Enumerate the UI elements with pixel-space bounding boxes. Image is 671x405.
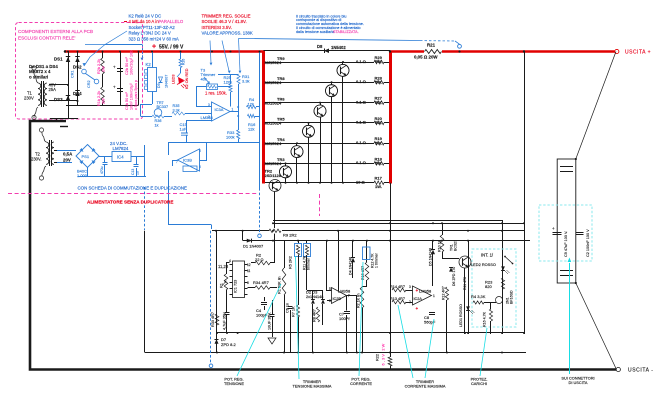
svg-text:0.1 Ω: 0.1 Ω — [356, 79, 367, 84]
svg-text:1 res. 150k.: 1 res. 150k. — [205, 91, 227, 96]
svg-text:R10 1K: R10 1K — [438, 239, 442, 252]
svg-text:5W.: 5W. — [375, 59, 382, 64]
svg-text:DS2: DS2 — [73, 65, 82, 70]
svg-text:5W.: 5W. — [375, 120, 382, 125]
svg-text:R5 2R2: R5 2R2 — [289, 256, 293, 269]
svg-text:230V.: 230V. — [31, 157, 42, 162]
svg-text:D6 ZPD 170: D6 ZPD 170 — [452, 267, 456, 286]
svg-text:+: + — [113, 85, 116, 90]
svg-text:1W.: 1W. — [375, 184, 382, 189]
svg-text:5: 5 — [199, 149, 201, 153]
svg-text:R12 4R7: R12 4R7 — [442, 286, 446, 300]
svg-text:CORRENTE: CORRENTE — [350, 381, 372, 386]
svg-text:LED2 ROSSO: LED2 ROSSO — [471, 262, 496, 267]
svg-text:R21: R21 — [427, 43, 436, 48]
svg-text:20V: 20V — [63, 158, 71, 163]
svg-text:3: 3 — [208, 103, 210, 107]
svg-text:CR1: CR1 — [71, 70, 75, 78]
svg-text:DS4: DS4 — [73, 91, 82, 96]
svg-text:1uF: 1uF — [180, 127, 187, 132]
svg-text:CARICHI: CARICHI — [471, 381, 487, 386]
svg-text:IC3A: IC3A — [215, 107, 224, 112]
svg-text:IC2A: IC2A — [414, 297, 423, 301]
svg-text:R1 50K lin: R1 50K lin — [278, 276, 282, 294]
svg-text:5W.: 5W. — [375, 100, 382, 105]
svg-text:IC4: IC4 — [117, 155, 124, 160]
svg-text:25A: 25A — [49, 87, 57, 92]
svg-text:trimmer: trimmer — [307, 257, 311, 270]
svg-text:C2 100nF 100 V: C2 100nF 100 V — [586, 229, 590, 257]
svg-text:dalla tensione ausiliaria: dalla tensione ausiliaria — [296, 30, 335, 34]
svg-text:ALIMENTATORE SENZA DUPLICATORE: ALIMENTATORE SENZA DUPLICATORE — [87, 200, 173, 205]
svg-text:10m² 100v/10μ²: 10m² 100v/10μ² — [130, 83, 134, 110]
svg-text:4: 4 — [229, 259, 231, 263]
svg-text:R11 470: R11 470 — [463, 277, 467, 290]
svg-text:11: 11 — [247, 269, 251, 273]
svg-text:CORRENTE MASSIMA: CORRENTE MASSIMA — [405, 384, 446, 389]
svg-text:1k: 1k — [155, 124, 159, 128]
svg-text:R4 3,3K: R4 3,3K — [471, 294, 486, 299]
svg-text:1: 1 — [232, 108, 234, 112]
svg-text:PS1: PS1 — [82, 154, 90, 159]
svg-text:INT. 1/: INT. 1/ — [481, 253, 494, 258]
svg-text:1u: 1u — [136, 171, 140, 175]
svg-text:12k: 12k — [248, 126, 254, 131]
svg-text:0.1 Ω: 0.1 Ω — [356, 59, 367, 64]
svg-text:6: 6 — [329, 299, 331, 303]
svg-text:1: 1 — [433, 294, 435, 298]
svg-text:ISTERESI 3.5V.: ISTERESI 3.5V. — [202, 25, 232, 30]
svg-text:820: 820 — [485, 284, 492, 289]
svg-text:R22: R22 — [376, 354, 380, 361]
svg-text:R2 1K lin: R2 1K lin — [357, 293, 361, 308]
svg-text:K2: K2 — [146, 62, 152, 67]
svg-text:o similari: o similari — [29, 74, 48, 79]
svg-text:R2b 2.2k: R2b 2.2k — [97, 59, 101, 74]
svg-text:R35: R35 — [173, 104, 180, 108]
svg-text:0,5A: 0,5A — [63, 152, 73, 157]
svg-text:2SD1128: 2SD1128 — [265, 173, 282, 178]
svg-text:R14 4R7: R14 4R7 — [390, 285, 405, 289]
svg-text:100k: 100k — [226, 135, 235, 140]
svg-text:6,3V 2W: 6,3V 2W — [382, 343, 386, 366]
svg-text:R36: R36 — [155, 119, 162, 123]
svg-text:MJ15024: MJ15024 — [265, 60, 282, 65]
svg-text:1N4007: 1N4007 — [165, 75, 169, 88]
svg-text:R7 1K: R7 1K — [292, 306, 296, 317]
svg-text:R16 4,7K: R16 4,7K — [482, 311, 486, 327]
svg-text:TENSIONE MASSIMA: TENSIONE MASSIMA — [293, 384, 332, 389]
svg-text:CON SCHEDA DI COMMUTAZIONE E D: CON SCHEDA DI COMMUTAZIONE E DUPLICAZION… — [78, 186, 188, 191]
svg-text:MJ15024: MJ15024 — [265, 161, 282, 166]
svg-text:R17: R17 — [375, 176, 383, 181]
svg-text:7: 7 — [176, 160, 178, 164]
svg-text:2x1N4148: 2x1N4148 — [306, 295, 323, 299]
svg-text:1.000: 1.000 — [77, 173, 88, 178]
svg-text:CR2: CR2 — [87, 80, 91, 88]
svg-text:R26: R26 — [182, 59, 186, 65]
svg-text:0.1 Ω: 0.1 Ω — [356, 99, 367, 104]
svg-text:+: + — [416, 288, 419, 293]
svg-text:MJ15024: MJ15024 — [265, 141, 282, 146]
svg-text:+: + — [416, 306, 419, 311]
svg-text:R8 4R7: R8 4R7 — [313, 309, 317, 322]
svg-text:DS1: DS1 — [54, 57, 63, 62]
svg-text:TRIMMER REG. SOGLIE: TRIMMER REG. SOGLIE — [202, 14, 251, 19]
svg-text:4,7uF 35V: 4,7uF 35V — [223, 312, 227, 330]
svg-text:DS3: DS3 — [54, 97, 63, 102]
svg-text:R13 4R7: R13 4R7 — [390, 297, 405, 301]
svg-text:TENSIONE: TENSIONE — [224, 381, 244, 386]
svg-text:1N5402: 1N5402 — [331, 45, 346, 50]
svg-text:2: 2 — [208, 115, 210, 119]
svg-text:2: 2 — [409, 300, 411, 304]
svg-text:LM358: LM358 — [419, 289, 432, 294]
svg-text:100Pf: 100Pf — [339, 316, 350, 321]
svg-text:10 Ω: 10 Ω — [356, 180, 366, 185]
svg-text:MJ15024: MJ15024 — [265, 121, 282, 126]
svg-text:5W.: 5W. — [375, 140, 382, 145]
svg-text:DI USCITA: DI USCITA — [569, 380, 588, 385]
svg-text:R1: R1 — [220, 283, 224, 288]
svg-text:LED3: LED3 — [172, 75, 176, 85]
svg-text:IC1 723: IC1 723 — [234, 280, 238, 293]
svg-text:D9: D9 — [157, 83, 161, 88]
svg-text:470u: 470u — [100, 166, 104, 174]
svg-text:6: 6 — [247, 281, 249, 285]
svg-text:ESCLUSI CONTATTI RELE': ESCLUSI CONTATTI RELE' — [18, 35, 75, 40]
svg-text:10UF 35V.: 10UF 35V. — [268, 312, 272, 330]
svg-text:x 5pcs parx 5pcs p: x 5pcs parx 5pcs p — [134, 80, 138, 110]
svg-text:D8: D8 — [317, 44, 323, 49]
svg-text:BC327: BC327 — [454, 240, 458, 251]
svg-text:C6 1n: C6 1n — [286, 303, 290, 313]
svg-text:C13: C13 — [131, 169, 135, 175]
svg-text:LED1 ROSSO: LED1 ROSSO — [459, 304, 463, 327]
svg-text:2W: 2W — [102, 66, 106, 72]
svg-text:+: + — [113, 65, 116, 70]
svg-text:C9 47uF 100 V.: C9 47uF 100 V. — [564, 231, 568, 257]
svg-text:PARALLELO: PARALLELO — [159, 19, 184, 24]
svg-text:USCITA +: USCITA + — [625, 50, 651, 56]
svg-text:R30 4R7: R30 4R7 — [211, 312, 215, 327]
svg-text:K2 Relè 24 V DC: K2 Relè 24 V DC — [129, 14, 162, 19]
svg-text:R1b 2.2k: R1b 2.2k — [97, 91, 101, 106]
svg-text:230V: 230V — [24, 96, 34, 101]
svg-text:D1 1N4007: D1 1N4007 — [243, 244, 264, 249]
svg-text:3.3k: 3.3k — [173, 109, 180, 113]
svg-text:C1b 50 m²: C1b 50 m² — [125, 92, 129, 110]
svg-text:C2b 50 m²: C2b 50 m² — [125, 57, 129, 75]
svg-text:100v/10μ² 100: 100v/10μ² 100 — [130, 51, 134, 75]
svg-text:1 trimmer: 1 trimmer — [375, 252, 379, 268]
svg-text:MJ15024: MJ15024 — [265, 80, 282, 85]
svg-text:D5 1N4148: D5 1N4148 — [429, 248, 433, 266]
svg-text:55V. / 99 V: 55V. / 99 V — [159, 45, 184, 51]
svg-text:VALORE APPROSS. 138K: VALORE APPROSS. 138K — [202, 31, 253, 36]
svg-text:ZPD 8.2: ZPD 8.2 — [221, 342, 236, 347]
svg-text:22 Ω: 22 Ω — [255, 257, 264, 262]
svg-text:R34 4R7: R34 4R7 — [253, 280, 270, 285]
svg-text:LM7824: LM7824 — [113, 146, 129, 151]
svg-text:+: + — [552, 226, 555, 231]
svg-text:5W.: 5W. — [375, 161, 382, 166]
svg-text:3: 3 — [409, 285, 411, 289]
svg-text:K2 ON RED: K2 ON RED — [185, 68, 189, 89]
svg-text:Relay LY3NJ DC 24 V: Relay LY3NJ DC 24 V — [129, 31, 171, 36]
svg-text:STABILIZZATA.: STABILIZZATA. — [333, 30, 359, 34]
svg-text:IC3B: IC3B — [183, 158, 192, 163]
svg-text:R9 2R2: R9 2R2 — [283, 233, 297, 238]
svg-text:COMPONENTI ESTERNI ALLA PCB: COMPONENTI ESTERNI ALLA PCB — [18, 29, 93, 34]
svg-text:USCITA -: USCITA - — [628, 368, 654, 374]
svg-text:0.1 Ω: 0.1 Ω — [356, 160, 367, 165]
svg-text:0.1 Ω: 0.1 Ω — [356, 120, 367, 125]
svg-text:323 Ω 358 mH24 V 60 mA: 323 Ω 358 mH24 V 60 mA — [129, 36, 179, 41]
svg-text:5: 5 — [329, 287, 331, 291]
svg-text:11,23: 11,23 — [218, 264, 229, 269]
svg-text:Socket PT11-13F-3Z-A2: Socket PT11-13F-3Z-A2 — [129, 25, 176, 30]
svg-text:+: + — [152, 44, 156, 51]
svg-text:3.3k: 3.3k — [242, 79, 250, 84]
svg-text:IC2B: IC2B — [333, 297, 342, 301]
svg-text:D4 1N4148: D4 1N4148 — [349, 257, 353, 275]
svg-text:SOGLIE 46.3 V / 41.8V.: SOGLIE 46.3 V / 41.8V. — [202, 19, 247, 24]
svg-text:4 ME da 10 A in: 4 ME da 10 A in — [129, 19, 160, 24]
svg-text:12: 12 — [247, 263, 251, 267]
svg-text:BF16SD: BF16SD — [510, 290, 514, 304]
svg-text:MJ15024: MJ15024 — [265, 100, 282, 105]
svg-text:LM358: LM358 — [201, 115, 214, 120]
svg-text:5W.: 5W. — [375, 80, 382, 85]
svg-text:0,05 Ω 20W: 0,05 Ω 20W — [414, 55, 438, 60]
svg-text:6: 6 — [199, 165, 201, 169]
svg-text:2W: 2W — [102, 98, 106, 104]
svg-text:LM358: LM358 — [338, 289, 351, 294]
svg-text:7: 7 — [348, 294, 350, 298]
svg-text:0.1 Ω: 0.1 Ω — [356, 140, 367, 145]
